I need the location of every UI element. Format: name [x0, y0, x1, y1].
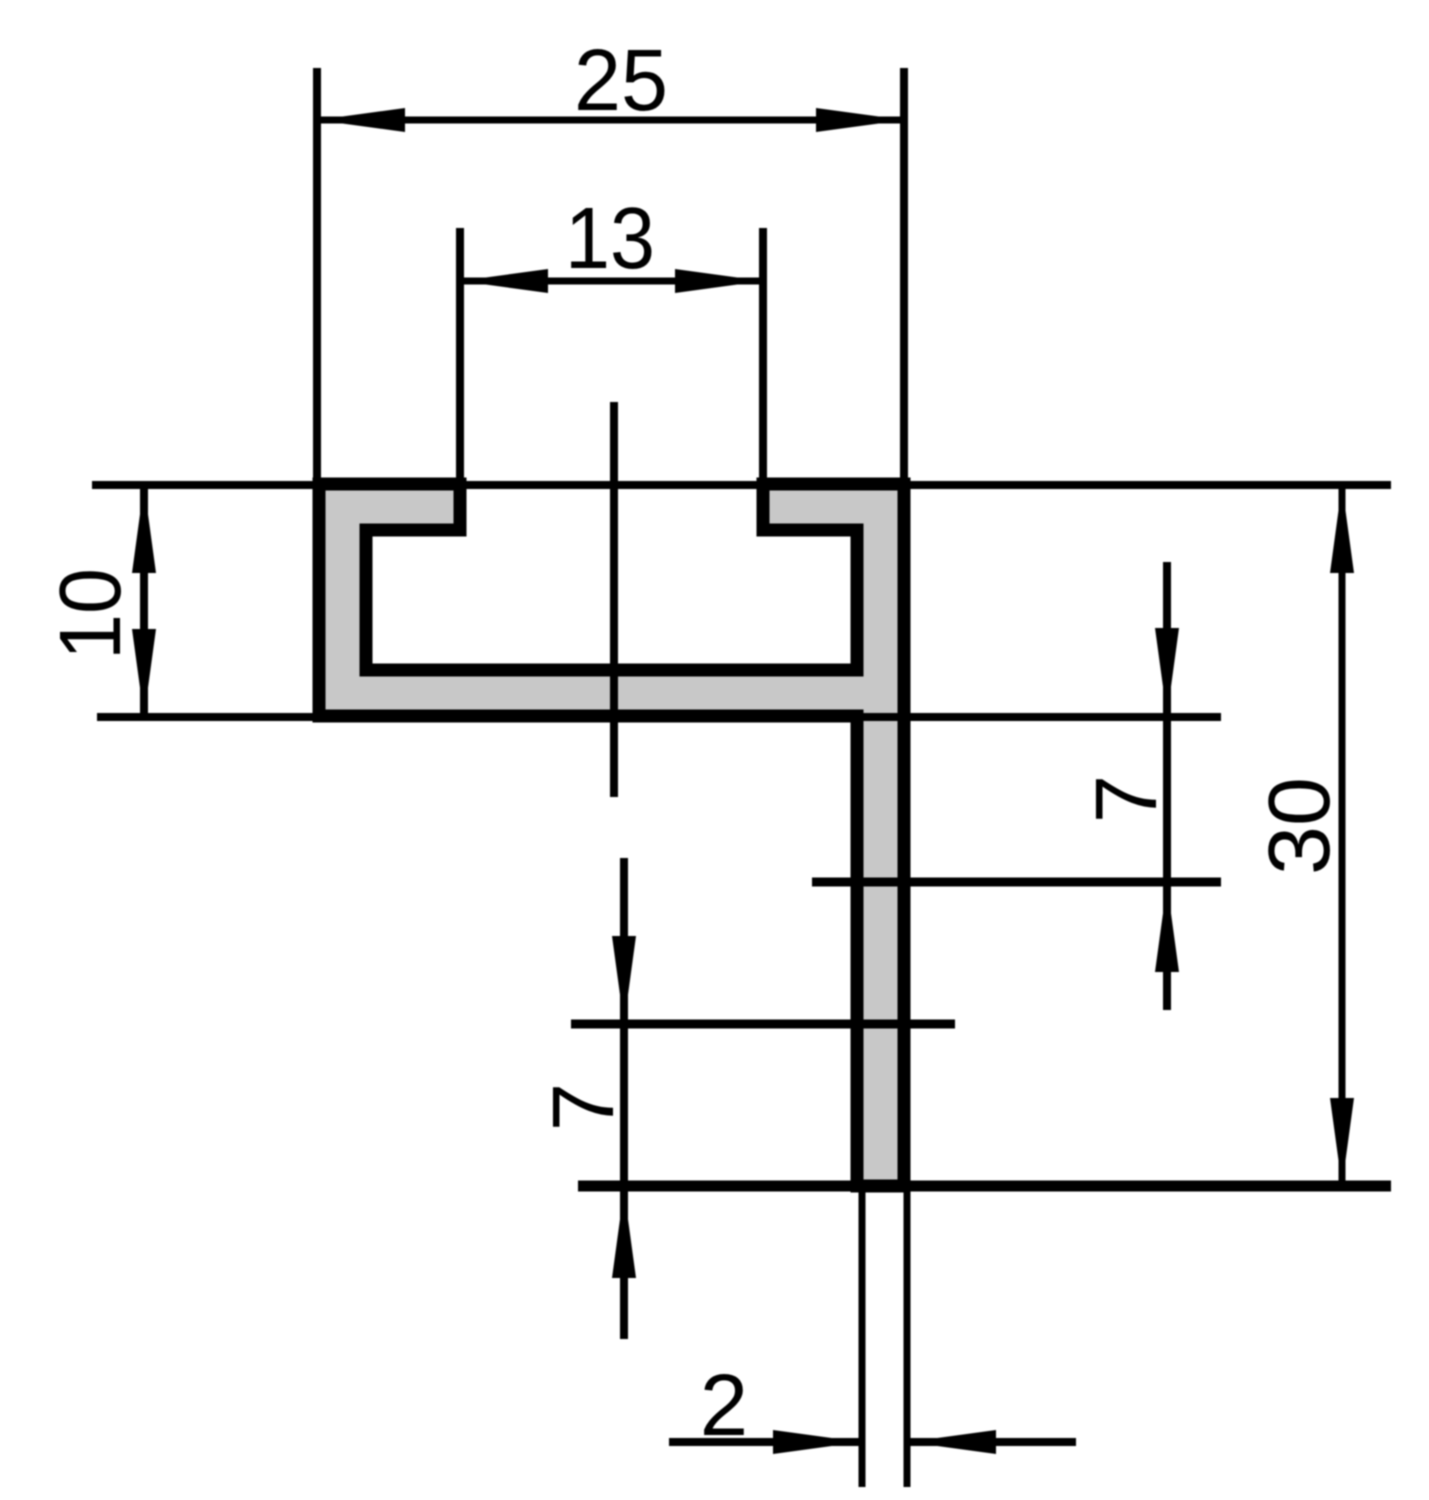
dimension 2 extension line left — [859, 1191, 866, 1487]
wire extension line y=1024 — [571, 1020, 955, 1029]
svg-text:25: 25 — [574, 32, 668, 129]
wire top surface line y=485 — [92, 481, 1391, 489]
dimension 7 left arrow down — [612, 936, 636, 1024]
dimension 30 line — [1339, 485, 1346, 1186]
dimension 2 line right segment — [908, 1438, 1076, 1446]
dimension 30 arrow down — [1330, 1098, 1354, 1186]
svg-text:7: 7 — [535, 1083, 632, 1131]
dimension 25 arrow right — [816, 108, 904, 132]
dimension 10 arrow down — [132, 629, 156, 717]
dimension 25 extension line right — [900, 68, 908, 484]
wire bottom of channel extension line y=717 — [97, 713, 1221, 721]
svg-text:7: 7 — [1078, 775, 1175, 823]
wire bottom line y=1186 — [578, 1181, 1391, 1192]
dimension 13 extension line left — [456, 228, 464, 484]
dimension 7 right line — [1163, 562, 1171, 1010]
dimension 10 arrow up — [132, 485, 156, 573]
centerline of slot — [610, 402, 618, 797]
dimension 2 arrow pointing right — [773, 1430, 861, 1454]
svg-text:10: 10 — [42, 568, 139, 660]
dimension 13 line — [460, 278, 763, 285]
dimension 13 extension line right — [759, 228, 767, 484]
svg-text:13: 13 — [565, 190, 655, 287]
dimension 7 right arrow down — [1155, 628, 1179, 716]
dimension 10 line — [140, 485, 148, 717]
profile cross-section filled body — [319, 484, 904, 1186]
dimension 2 arrow pointing left — [908, 1430, 996, 1454]
dimension 13 arrow left — [460, 269, 548, 293]
dimension 7 left line — [620, 858, 628, 1339]
dimension 30 arrow up — [1330, 485, 1354, 573]
dimension 2 line left segment — [669, 1438, 861, 1446]
dimension 13 arrow right — [675, 269, 763, 293]
profile outline — [319, 484, 904, 1186]
dimension 25 extension line left — [313, 68, 321, 484]
svg-text:30: 30 — [1251, 777, 1348, 875]
svg-text:2: 2 — [700, 1357, 748, 1454]
dimension 7 left arrow up — [612, 1190, 636, 1278]
dimension 2 extension line right — [904, 1191, 911, 1487]
dimension 25 line — [317, 117, 904, 124]
dimension 7 right arrow up — [1155, 884, 1179, 972]
wire extension line y=882 — [812, 878, 1221, 887]
dimension 25 arrow left — [317, 108, 405, 132]
